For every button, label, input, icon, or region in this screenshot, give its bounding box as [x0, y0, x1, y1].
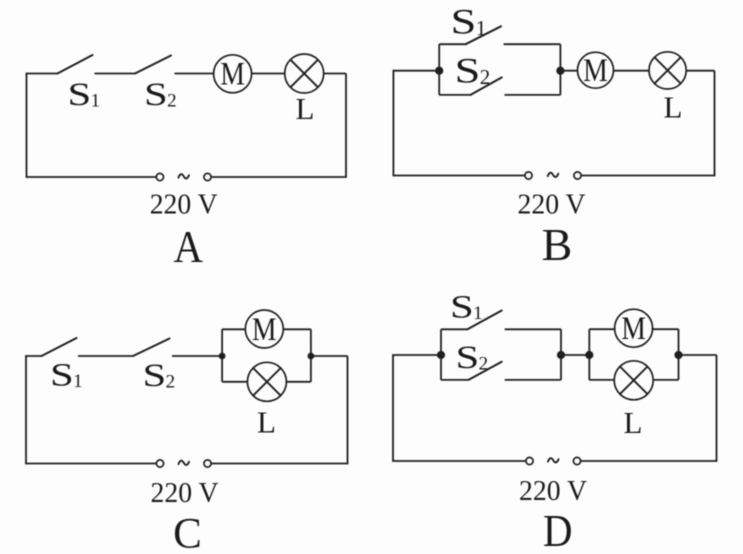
svg-text:S: S [455, 51, 481, 91]
svg-text:M: M [220, 57, 245, 93]
svg-text:2: 2 [480, 65, 491, 89]
svg-text:M: M [252, 312, 277, 348]
svg-text:220 V: 220 V [519, 475, 587, 507]
svg-text:D: D [543, 505, 573, 554]
svg-text:1: 1 [73, 371, 83, 392]
svg-text:1: 1 [473, 303, 483, 324]
svg-text:M: M [583, 53, 608, 89]
svg-text:L: L [257, 405, 276, 440]
svg-text:S: S [50, 358, 74, 394]
svg-text:A: A [173, 221, 203, 272]
svg-text:L: L [664, 89, 683, 124]
svg-text:S: S [68, 77, 92, 113]
svg-text:C: C [173, 511, 202, 554]
svg-text:M: M [621, 311, 646, 347]
svg-text:2: 2 [167, 91, 177, 112]
svg-text:S: S [456, 340, 480, 376]
svg-text:L: L [296, 91, 315, 126]
svg-text:1: 1 [91, 91, 101, 112]
svg-text:2: 2 [479, 354, 489, 375]
svg-text:S: S [143, 358, 167, 394]
svg-text:L: L [624, 405, 643, 440]
svg-text:220 V: 220 V [518, 189, 586, 221]
svg-text:S: S [451, 2, 477, 42]
svg-text:220 V: 220 V [151, 477, 219, 509]
svg-text:2: 2 [166, 372, 176, 393]
svg-text:220 V: 220 V [150, 189, 218, 221]
svg-text:S: S [144, 77, 168, 113]
svg-text:S: S [450, 290, 474, 326]
svg-text:B: B [542, 219, 573, 270]
svg-text:1: 1 [476, 16, 487, 40]
